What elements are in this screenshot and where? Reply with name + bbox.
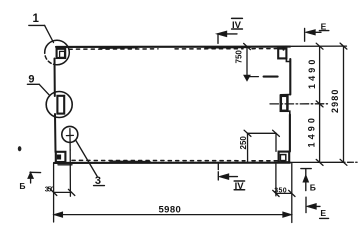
svg-text:2980: 2980 [330,89,340,113]
svg-text:E: E [321,21,327,31]
wire right wall upper segment [289,59,291,95]
dimension line 2980 [330,43,347,165]
section marker Б left [19,172,40,191]
svg-text:1490: 1490 [307,115,317,147]
svg-text:E: E [320,208,326,218]
wire right wall jog at pilaster [281,95,291,115]
wire top wall hatch ticks [69,48,288,51]
label 1 with leader [29,13,54,43]
dimension 750 top [235,43,278,80]
wire top wall line [56,47,290,49]
svg-text:750: 750 [235,50,244,64]
callout circle 1 [45,40,70,65]
node centerline right pilaster [270,103,328,105]
section marker E top [305,21,329,41]
corner element bottom-right [279,152,290,163]
dimension 250 bottom [239,130,279,162]
corner element top-right [278,47,290,61]
svg-text:Б: Б [19,181,25,191]
svg-text:Б: Б [310,182,316,192]
label 9 with leader [27,74,49,96]
callout circle 3 [62,126,78,142]
wire right wall lower segment [289,115,291,152]
label 3 with leader [76,140,105,187]
wire bottom wall hatch ticks [72,159,288,161]
svg-text:5980: 5980 [159,204,182,215]
svg-text:1490: 1490 [307,57,317,89]
dimension 350 left [45,150,75,196]
wire bottom wall line [54,161,290,163]
pilaster on right wall [281,96,288,111]
section marker E bottom right [306,197,329,218]
dimension 5980 [54,204,292,217]
callout circle 9 [46,92,72,118]
scan speck [18,146,22,151]
svg-text:250: 250 [239,136,248,150]
svg-text:1: 1 [33,13,40,25]
section marker IV top [218,18,243,43]
section marker IV bottom [218,163,244,192]
detail 9 channel element [57,96,64,114]
extension line left for 5980 [53,163,55,222]
dimension extension bottom right with centerline tail [290,161,359,163]
node axis through circle 3 [66,129,73,150]
dimension extension top right [290,45,346,47]
extension line right for 5980 [291,163,293,223]
corner element bottom-left [56,152,72,165]
corner element top-left [57,49,66,58]
section marker Б bottom right [301,169,316,193]
dimension 350 right [273,133,295,196]
wire left wall [55,59,56,153]
svg-text:350: 350 [274,187,287,194]
dimension line 1490/1490 [307,43,324,165]
